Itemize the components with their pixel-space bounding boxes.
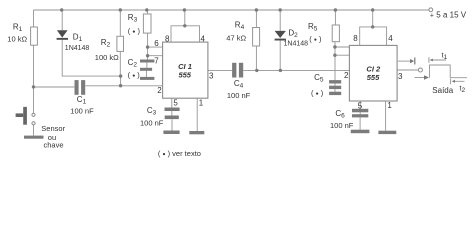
svg-text:1: 1	[199, 99, 204, 108]
svg-text:Sensor: Sensor	[41, 124, 65, 133]
svg-text:100 nF: 100 nF	[140, 119, 164, 128]
svg-text:1: 1	[387, 101, 392, 110]
svg-text:1N4148: 1N4148	[284, 41, 309, 48]
svg-text:8: 8	[165, 35, 170, 44]
svg-text:10 kΩ: 10 kΩ	[7, 35, 27, 44]
svg-text:2: 2	[157, 86, 162, 95]
svg-text:100 nF: 100 nF	[70, 107, 94, 116]
svg-text:555: 555	[178, 70, 191, 79]
svg-text:5: 5	[358, 101, 363, 110]
svg-text:8: 8	[353, 34, 358, 43]
svg-text:4: 4	[388, 34, 393, 43]
svg-text:+: +	[430, 13, 434, 20]
svg-text:Saída: Saída	[432, 86, 453, 95]
svg-text:1N4148: 1N4148	[65, 45, 90, 52]
svg-text:3: 3	[398, 72, 403, 81]
svg-text:5 a 15 V: 5 a 15 V	[436, 11, 466, 20]
svg-text:100 nF: 100 nF	[227, 91, 251, 100]
svg-text:100 kΩ: 100 kΩ	[95, 53, 119, 62]
svg-text:4: 4	[201, 35, 206, 44]
svg-text:chave: chave	[44, 141, 64, 150]
svg-text:555: 555	[367, 73, 380, 82]
svg-text:2: 2	[344, 71, 349, 80]
svg-text:5: 5	[173, 99, 178, 108]
svg-text:47 kΩ: 47 kΩ	[226, 34, 246, 43]
svg-text:7: 7	[154, 56, 159, 65]
svg-text:100 nF: 100 nF	[330, 121, 354, 130]
svg-text:6: 6	[154, 39, 159, 48]
svg-text:3: 3	[209, 72, 214, 81]
